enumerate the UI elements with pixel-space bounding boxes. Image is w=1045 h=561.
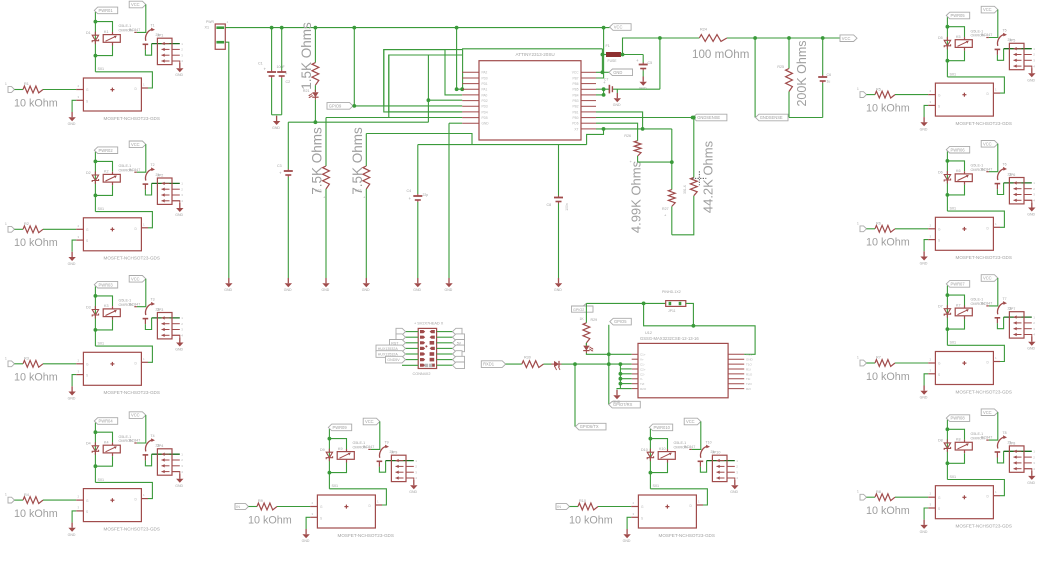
wire pin to R9 [249,506,258,508]
svg-text:1K: 1K [580,317,585,321]
svg-text:F1: F1 [606,44,610,48]
origin cross [692,171,706,185]
svg-text:S: S [86,510,88,514]
svg-text:BC847: BC847 [684,445,695,449]
svg-text:+: + [279,171,282,176]
svg-text:R7: R7 [876,356,881,360]
pin header JP7 [1009,312,1024,338]
MOSFET driver U6 [928,228,935,230]
ground U9 [305,529,307,534]
svg-text:VCC: VCC [131,142,140,147]
svg-text:ATTINY2313-20SU: ATTINY2313-20SU [516,52,555,57]
svg-text:PD4: PD4 [482,110,488,114]
svg-text:+: + [636,58,639,63]
wire VCC to Q4 [137,415,146,443]
svg-text:PA0: PA0 [482,93,488,97]
wire relay branch [95,296,112,306]
svg-text:PB5: PB5 [572,88,578,92]
resistor R8 10 kOhm [875,494,895,501]
junction [607,362,611,366]
wire VCC to Q3 [137,279,146,307]
ground C8 [558,278,560,283]
junction [692,324,696,328]
junction [649,471,653,475]
wire Q8 emitter to JP8 [997,451,1003,463]
svg-text:MOSFET-NCHSOT23-GDS: MOSFET-NCHSOT23-GDS [956,121,1012,126]
net flag GND2 [693,114,727,121]
junction [352,26,356,30]
junction [658,36,662,40]
svg-text:C1-: C1- [640,363,645,367]
wire row9 to flag GND2 [596,117,693,119]
svg-text:GND: GND [482,122,490,126]
wire coil net K7 [946,286,948,346]
svg-text:T10: T10 [706,440,712,444]
net flag VCC [981,275,998,282]
wire R10 to U10 [598,506,631,508]
svg-text:VCC: VCC [614,25,623,30]
pin header JP4 [157,449,172,475]
net flag right icsp3 [453,340,465,347]
svg-text:K10: K10 [659,447,666,451]
svg-text:C1: C1 [258,62,263,66]
svg-text:C6: C6 [827,73,832,77]
wire Q2 emitter to JP2 [145,183,151,195]
net flag VCC [129,1,146,8]
ground JP10 [734,480,736,485]
svg-text:10 kOhm: 10 kOhm [866,102,910,114]
wire R3 to U3 [43,363,76,365]
junction [328,471,332,475]
svg-text:10 kOhm: 10 kOhm [866,505,910,517]
ground JP8 [1031,471,1033,476]
svg-text:VCC: VCC [983,7,992,12]
net flag right icsp5 [453,351,463,358]
net flag VCC [684,418,701,425]
pin header JP2 [157,178,172,204]
net flag VCC [363,418,380,425]
wire U10 source to ground [627,517,631,529]
wire staircase row11 [587,129,604,145]
wire JP10 pin4 to ground [727,478,735,480]
junction [821,36,825,40]
pin header JP5 [1009,43,1024,69]
wire R8 to U8 [895,496,928,498]
wire coil net K10 [649,429,651,489]
svg-text:GND: GND [1027,347,1035,351]
svg-text:VCC: VCC [131,2,140,7]
svg-text:GND: GND [413,288,421,292]
wire U3 source to ground [72,375,76,387]
svg-text:C2-: C2- [640,372,645,376]
wire Q10 emitter to JP10 [700,461,706,473]
wire U2 gate net [95,212,152,228]
svg-text:R26: R26 [624,134,631,138]
junction [753,36,757,40]
svg-text:R2: R2 [24,222,29,226]
junction [619,362,623,366]
ground C3 [287,278,289,283]
MOSFET driver U7 [928,362,935,364]
junction [314,120,318,124]
wire row6 [428,99,462,101]
svg-text:JP7: JP7 [1009,307,1015,311]
wire VCC to Q1 [137,5,146,33]
svg-text:PWR08: PWR08 [951,416,966,421]
svg-text:K8: K8 [956,438,961,442]
ground R22 [325,278,327,283]
svg-text:R22: R22 [315,189,322,193]
wire sense divider [659,38,661,89]
wire U5 gate net [947,77,1004,93]
svg-text:X1: X1 [205,26,210,30]
svg-text:GND: GND [613,103,621,107]
resistor R21 1.5K [314,28,316,63]
ground C7 [616,89,618,93]
svg-text:GSSG-MAX3232CSE-12-13-16: GSSG-MAX3232CSE-12-13-16 [640,336,699,341]
ground JP6 [1031,202,1033,207]
svg-text:1: 1 [5,222,7,226]
wire relay branch [947,27,964,37]
net flag PWR08 [946,415,969,422]
svg-text:PD0: PD0 [482,76,488,80]
junction [621,53,625,57]
flyback diode D3 [94,306,96,310]
svg-text:1u: 1u [827,80,831,84]
wire to U12 pin1 [609,353,632,355]
svg-text:PINHD-1X2: PINHD-1X2 [662,290,681,294]
svg-text:R30: R30 [524,356,531,360]
svg-text:D8: D8 [938,439,943,443]
svg-text:T8: T8 [1003,431,1007,435]
relay coil K10 [658,452,675,460]
ground C4 [417,278,419,283]
net flag right icsp4 [453,345,465,352]
svg-text:D3: D3 [86,305,91,309]
svg-text:BC847: BC847 [129,302,140,306]
net flag GPIO7RX [609,401,641,408]
wire serial top [586,302,665,304]
ground JP9 [413,480,415,485]
svg-text:MOSFET-NCHSOT23-GDS: MOSFET-NCHSOT23-GDS [104,526,160,531]
wire coil net K6 [946,151,948,211]
svg-text:U12: U12 [645,331,652,335]
svg-text:R6: R6 [876,222,881,226]
svg-text:C5: C5 [648,61,653,65]
relay coil K3 [103,309,120,317]
junction [619,377,623,381]
resistor R6 10 kOhm [875,225,895,232]
wire relay branch [947,295,964,305]
wire Q5 emitter to JP5 [997,49,1003,61]
wire divider mid [671,129,673,190]
svg-text:GND: GND [322,288,330,292]
svg-text:PA2: PA2 [482,71,488,75]
svg-text:V+: V+ [640,358,644,362]
svg-text:GND: GND [68,397,76,401]
wire R7 to U7 [895,362,928,364]
relay coil K1 [103,35,120,43]
svg-text:D7: D7 [938,305,943,309]
svg-text:JP3: JP3 [157,308,163,312]
svg-text:JP1: JP1 [157,34,163,38]
net flag SCK [396,334,406,341]
wire coil net K1 [94,12,96,72]
wire U10 gate net [650,489,707,505]
svg-text:GND: GND [445,288,453,292]
svg-text:GND: GND [613,70,622,75]
svg-text:MOSFET-NCHSOT23-GDS: MOSFET-NCHSOT23-GDS [104,116,160,121]
relay coil K2 [103,174,120,182]
junction [602,127,606,131]
wire coil net K3 [94,286,96,346]
wire Q1 emitter to JP1 [145,44,151,56]
transistor Q2 [145,169,152,181]
svg-text:BC847: BC847 [129,28,140,32]
svg-text:PA1: PA1 [482,88,488,92]
resistor R5 10 kOhm [875,91,895,98]
wire gnd bundle [619,364,621,389]
svg-text:CONN4X2: CONN4X2 [413,372,431,376]
net flag TX1 [481,361,505,368]
MOSFET driver U2 [76,228,83,230]
flyback diode D10 [649,449,651,453]
ICSP right wires [437,331,453,333]
ground JP4 [179,474,181,479]
wire VCC to Q5 [989,10,998,38]
resistor R3 10 kOhm [23,360,43,367]
wire pin to R2 [15,228,24,230]
resistor R7 10 kOhm [875,360,895,367]
ground U6 [923,251,925,256]
net flag MUX2 [376,351,406,358]
svg-text:S01: S01 [98,67,105,71]
wire header pin2 [686,303,694,325]
resistor R26 4.99K [634,141,641,156]
wire loop F [384,50,462,106]
wire Q3 emitter to JP3 [145,318,151,330]
MOSFET driver U8 [928,496,935,498]
fuse F1 [601,49,603,55]
svg-text:GND: GND [746,358,754,362]
junction [94,194,98,198]
svg-text:C2+: C2+ [640,367,646,371]
relay coil K9 [337,452,354,460]
svg-text:GPIO5: GPIO5 [614,319,627,324]
net flag right icsp1 [453,328,463,335]
wire VCC to Q7 [989,278,998,306]
wire bus3 [660,37,699,39]
svg-text:T3: T3 [151,298,155,302]
svg-text:GND: GND [362,288,370,292]
junction [573,362,577,366]
pin header JP3 [157,313,172,339]
wire U1 source to ground [72,100,76,112]
svg-text:BC847: BC847 [981,33,992,37]
wire pin to R10 [570,506,579,508]
svg-text:JP6: JP6 [1009,173,1015,177]
wire U7 source to ground [924,374,928,386]
resistor R25 200K [788,38,790,69]
svg-text:PD6: PD6 [572,122,578,126]
wire R22 to U11 [326,117,462,119]
wire bus4 [727,37,840,39]
svg-text:1.5K Ohms: 1.5K Ohms [299,22,314,90]
svg-text:K4: K4 [104,440,109,444]
transistor Q6 [997,169,1004,181]
wire relay branch [95,22,112,32]
wire row11 to R27 [604,128,672,130]
ground X1 [228,278,230,283]
svg-text:VCC: VCC [746,353,753,357]
svg-text:PWR02: PWR02 [99,148,114,153]
ground net2 [448,278,450,283]
ground U3 [71,386,73,391]
MOSFET driver U9 [310,506,317,508]
svg-text:1: 1 [857,490,859,494]
svg-text:GND5V: GND5V [387,358,400,362]
wire pin to R5 [867,94,876,96]
svg-text:1: 1 [857,356,859,360]
svg-text:D4: D4 [86,442,91,446]
resistor R4 10 kOhm [23,497,43,504]
wire Q6 emitter to JP6 [997,183,1003,195]
net flag GPIO2 [572,303,594,312]
capacitor C1 [271,28,273,70]
wire R25 C6 join [789,117,823,119]
svg-text:S01: S01 [332,484,339,488]
junction [607,352,611,356]
wire coil net K4 [94,423,96,483]
wire TX1 to R30 [506,363,522,365]
wire flag drop [574,364,576,427]
capacitor C4 [417,145,419,194]
junction [946,193,950,197]
svg-text:R1O: R1O [746,372,753,376]
junction [602,93,606,97]
wire U11 pin2 to bus [596,28,604,78]
svg-text:T6: T6 [1003,163,1007,167]
svg-text:S: S [938,507,940,511]
wire U8 source to ground [924,508,928,520]
junction [94,430,98,434]
wire serial loop [644,303,756,354]
svg-text:R1: R1 [24,82,29,86]
svg-text:S01: S01 [950,207,957,211]
ground U4 [71,523,73,528]
svg-text:PB2: PB2 [572,105,578,109]
net flag GPIO6TX [576,423,607,430]
wire R5 to U5 [895,94,928,96]
svg-text:PWR04: PWR04 [99,419,114,424]
svg-text:C7: C7 [604,78,608,82]
svg-text:T5: T5 [1003,28,1007,32]
capacitor C8 [558,145,560,196]
junction [94,54,98,58]
ground C1 C2 [276,116,278,121]
wire VCC to Q6 [989,144,998,172]
svg-text:GNDSENSE: GNDSENSE [697,115,720,120]
svg-text:7.5K Ohms: 7.5K Ohms [350,127,365,195]
wire LED3 junction [562,363,576,365]
wire coil net K2 [94,152,96,212]
net flag PWR01 [94,7,117,14]
svg-text:GND: GND [1027,481,1035,485]
svg-text:VCC: VCC [983,276,992,281]
resistor R1 10 kOhm [23,86,43,93]
svg-text:MOSFET-NCHSOT23-GDS: MOSFET-NCHSOT23-GDS [956,255,1012,260]
junction [455,26,459,30]
svg-text:FUSE: FUSE [608,59,618,63]
svg-text:R8: R8 [876,490,881,494]
net flag GND icsp [386,356,406,363]
svg-text:T2I: T2I [640,382,645,386]
svg-text:10 kOhm: 10 kOhm [14,508,58,520]
pin header JP10 [712,455,727,481]
svg-text:PB4: PB4 [572,93,578,97]
wire pin to R4 [15,499,24,501]
svg-text:R5: R5 [876,87,881,91]
wire caps join [272,114,282,116]
svg-text:10 kOhm: 10 kOhm [14,237,58,249]
svg-text:BC847: BC847 [363,445,374,449]
ground JP5 [1031,68,1033,73]
svg-text:GPIO6/TX: GPIO6/TX [580,424,599,429]
svg-text:GND: GND [224,288,232,292]
svg-text:S01: S01 [653,484,660,488]
svg-text:K2: K2 [104,170,109,174]
wire U2 source to ground [72,240,76,252]
svg-text:R3: R3 [24,357,29,361]
net flag VCC bus end [610,24,632,31]
junction [946,159,950,163]
wire JP2 pin4 to ground [172,201,180,203]
svg-text:S01: S01 [950,341,957,345]
svg-text:PWR06: PWR06 [951,147,966,152]
capacitor C3 [287,122,289,169]
resistor R2 10 kOhm [23,226,43,233]
svg-text:GND: GND [613,400,621,404]
capacitor C7 [608,85,610,94]
resistor R23 7.5K [365,134,367,167]
svg-text:BC847: BC847 [981,167,992,171]
net flag right icsp6 [453,356,465,363]
wire pin to R7 [867,362,876,364]
transistor Q3 [145,304,152,316]
wire relay branch [95,432,112,442]
relay coil K4 [103,445,120,453]
svg-text:GND: GND [302,539,310,543]
svg-text:MOSFET-NCHSOT23-GDS: MOSFET-NCHSOT23-GDS [338,533,394,538]
svg-text:PWR05: PWR05 [951,13,966,18]
svg-text:22p: 22p [423,193,429,197]
MOSFET driver U5 [928,94,935,96]
wire JP4 pin4 to ground [172,472,180,474]
junction [270,26,274,30]
MAX3232 U12 [632,353,638,355]
wire under U11 [418,144,587,146]
ground JP7 [1031,337,1033,342]
relay coil K7 [955,308,972,316]
svg-text:BC847: BC847 [981,302,992,306]
wire JP8 pin4 to ground [1024,469,1032,471]
ICSP header SV1 [418,328,436,368]
svg-text:JP11: JP11 [668,309,676,313]
ground JP2 [179,203,181,208]
svg-text:10 kOhm: 10 kOhm [248,514,292,526]
svg-text:GND: GND [68,262,76,266]
ground U7 [923,386,925,391]
